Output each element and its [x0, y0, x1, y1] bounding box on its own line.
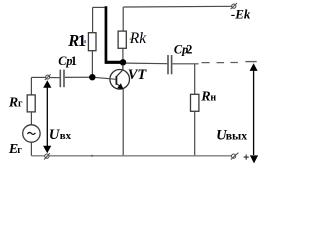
node base junction [89, 74, 95, 80]
node artifact dot [91, 155, 93, 157]
terminal bottom right [232, 154, 236, 158]
emitter arrowhead [117, 83, 123, 89]
svg-text:VT: VT [128, 67, 148, 83]
svg-text:R: R [200, 90, 210, 105]
wire emitter down [122, 89, 124, 156]
capacitor Cp2 [167, 55, 169, 74]
terminal input top [46, 75, 50, 79]
svg-text:г: г [18, 99, 23, 110]
transistor base bar [115, 76, 117, 85]
resistor R1 [88, 33, 96, 51]
svg-text:-Ek: -Ek [231, 7, 251, 22]
wire Rg top [31, 76, 45, 78]
transistor VT [110, 70, 130, 90]
terminal bottom left [45, 154, 49, 158]
wire Rn branch down [194, 64, 196, 95]
svg-text:Rk: Rk [129, 30, 147, 47]
svg-text:2: 2 [186, 42, 192, 56]
wire Rn bottom [194, 111, 196, 156]
wire R1 branch vertical [92, 7, 94, 33]
wire -Ek top rail [123, 5, 231, 8]
arrow Uvyh (output voltage, double headed) [253, 69, 255, 155]
wire Rg to Eg [30, 112, 32, 125]
label plus [244, 155, 249, 160]
wire collector to Cp2 [126, 62, 167, 65]
resistor Rn [191, 94, 199, 111]
source Eg [23, 125, 40, 142]
svg-text:г: г [17, 145, 22, 156]
svg-text:н: н [210, 93, 216, 104]
terminal -Ek [232, 4, 236, 8]
wire Rk top [122, 7, 124, 31]
dashed wire to Uvyh arrow [202, 62, 238, 64]
resistor Rk [118, 31, 126, 48]
arrow Uvh (input voltage, double headed) [46, 85, 48, 148]
capacitor Cp1 [60, 70, 62, 88]
svg-text:вх: вх [60, 130, 72, 142]
transistor emitter lead [117, 84, 124, 89]
resistor Rg [27, 95, 35, 112]
wire R1 bottom [91, 51, 93, 77]
thick feedback wire (collector to R1) [105, 6, 121, 64]
wire Cp2 to output node [172, 63, 198, 65]
wire base [65, 77, 116, 79]
transistor collector lead [117, 65, 123, 77]
scan artifact speck orange [130, 38, 132, 40]
wire Eg bottom [30, 142, 32, 156]
wire Rk bottom [122, 48, 124, 62]
svg-text:вых: вых [226, 128, 248, 142]
wire bottom rail [31, 155, 231, 157]
scan artifact speck blue [84, 40, 86, 43]
svg-text:1: 1 [71, 54, 77, 68]
wire input terminal to Cp1 [50, 77, 60, 79]
wire R1 top horizontal [93, 6, 106, 8]
node collector junction [120, 59, 126, 65]
svg-text:R: R [8, 96, 18, 111]
